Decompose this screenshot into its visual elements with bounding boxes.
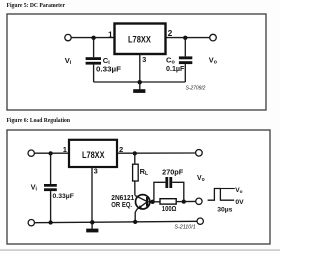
wire to middle terminal — [184, 200, 196, 202]
svg-text:3: 3 — [142, 55, 146, 64]
label 2N6121 OR EQ. — [111, 195, 134, 209]
figure 5 frame — [7, 14, 266, 110]
resistor 100ohm — [153, 199, 184, 204]
wire pin2 to terminal — [117, 152, 196, 154]
figure 6 frame — [7, 130, 270, 244]
wire input to pin1 — [35, 152, 70, 154]
svg-text:0V: 0V — [235, 199, 244, 206]
node junction base network right — [182, 199, 186, 203]
svg-text:30µs: 30µs — [217, 206, 232, 213]
node junction C tap — [48, 151, 52, 155]
pin 3 wire fig6 — [91, 167, 93, 222]
node junction Co tap — [183, 36, 187, 40]
bottom-left terminal — [28, 220, 34, 226]
capacitor Ci 0.33uF — [86, 38, 101, 82]
svg-text:S-2110/1: S-2110/1 — [174, 224, 195, 230]
wire input to pin1 — [71, 37, 114, 39]
regulator IC1 L78XX box — [115, 24, 166, 55]
node junction Ci tap — [91, 36, 95, 40]
svg-text:OR EQ.: OR EQ. — [111, 202, 132, 209]
middle terminal circle — [196, 198, 202, 204]
node junction emitter to rail — [133, 220, 137, 224]
ground symbol — [133, 82, 145, 93]
svg-text:0.33µF: 0.33µF — [96, 64, 122, 73]
bottom-right terminal — [197, 218, 203, 224]
svg-text:L78XX: L78XX — [82, 150, 105, 160]
capacitor Co 0.1uF — [179, 38, 192, 82]
pin 3 wire — [139, 55, 141, 82]
node junction RL tap — [133, 151, 137, 155]
svg-text:L78XX: L78XX — [128, 34, 151, 44]
waveform pulse — [208, 189, 235, 201]
input terminal top-left — [28, 150, 34, 156]
svg-text:0.33µF: 0.33µF — [53, 193, 74, 200]
svg-text:1: 1 — [108, 29, 113, 39]
wire pin2 to output — [166, 37, 210, 39]
ground rail — [94, 81, 186, 83]
transistor Q1 2N6121 — [135, 195, 152, 222]
svg-text:Figure 6: Load Regulation: Figure 6: Load Regulation — [7, 117, 71, 124]
node junction ground — [138, 80, 142, 84]
output terminal circle Vo — [210, 34, 217, 41]
page separator gray line — [0, 249, 280, 251]
input terminal circle Vi — [65, 34, 71, 40]
node junction cap bottom — [48, 220, 52, 224]
capacitor 270pF — [154, 177, 184, 202]
svg-text:100Ω: 100Ω — [162, 206, 177, 213]
output terminal top-right — [196, 150, 203, 157]
node junction pin3 ground — [90, 220, 94, 224]
svg-text:0.1µF: 0.1µF — [166, 64, 185, 73]
bottom rail wire — [35, 221, 197, 222]
resistor RL — [133, 153, 139, 195]
svg-text:S-2709/2: S-2709/2 — [186, 86, 206, 92]
svg-text:3: 3 — [94, 166, 98, 175]
svg-text:Figure 5: DC Parameter: Figure 5: DC Parameter — [7, 2, 66, 9]
svg-text:270pF: 270pF — [162, 169, 184, 176]
node junction base network left — [150, 200, 154, 204]
regulator IC2 L78XX box — [69, 140, 117, 167]
capacitor 0.33uF fig6 — [44, 153, 57, 222]
svg-text:2N6121: 2N6121 — [111, 195, 134, 202]
svg-text:2: 2 — [168, 28, 173, 38]
ground symbol fig6 — [86, 222, 98, 232]
svg-text:Vo: Vo — [197, 175, 205, 183]
